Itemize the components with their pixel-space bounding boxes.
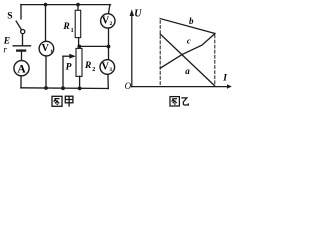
voltmeter V2 circle [101, 14, 115, 28]
wire node M1 to right column [79, 45, 108, 47]
wire V3 to bottom [107, 74, 109, 88]
svg-text:c: c [187, 36, 191, 46]
wire node to V3 [108, 47, 110, 60]
wire slider P vertical [62, 56, 64, 88]
wire top right corner down to V2 [108, 5, 110, 14]
switch S blade [16, 21, 21, 30]
node dot T1 above R1 [76, 3, 80, 7]
node dot bottom V1 [44, 86, 48, 90]
node dot M1 below R1 [77, 45, 81, 49]
svg-text:V: V [42, 43, 50, 54]
svg-text:2: 2 [110, 21, 113, 27]
svg-text:I: I [222, 74, 227, 84]
wire top horizontal [21, 4, 111, 6]
svg-text:b: b [189, 16, 194, 26]
U axis arrowhead [130, 9, 134, 16]
node dot bottom slider [61, 86, 65, 90]
svg-text:1: 1 [50, 49, 53, 55]
node dot bottom R2 [78, 87, 82, 91]
arrowhead slider P [69, 54, 76, 59]
wire V1 branch top [45, 5, 47, 42]
dashed vline at I1 [159, 21, 161, 87]
node dot right junction V2/V3 [107, 45, 111, 49]
I axis arrowhead [227, 84, 232, 88]
wire ammeter to bottom [20, 76, 22, 88]
svg-text:a: a [185, 66, 190, 76]
svg-text:A: A [17, 63, 26, 75]
wire top-left stub to switch [20, 5, 22, 19]
wire battery to ammeter [21, 52, 23, 61]
svg-text:R: R [84, 61, 91, 71]
battery E short plate [17, 49, 25, 51]
rheostat R2 box [76, 48, 82, 76]
ammeter A circle [14, 61, 29, 76]
line c [160, 34, 215, 69]
resistor R1 box [75, 10, 81, 37]
svg-text:r: r [3, 45, 7, 55]
caption 图乙 (drawn) [170, 97, 188, 106]
svg-text:P: P [66, 63, 72, 73]
dashed vline at I2 [214, 35, 216, 86]
line b [160, 19, 215, 34]
I axis [132, 86, 230, 88]
wire M1 to R2 [78, 46, 80, 48]
node dot top V1 branch [44, 3, 48, 7]
svg-text:3: 3 [109, 67, 112, 73]
wire stub top to R1 [77, 5, 79, 11]
U axis [131, 14, 133, 87]
line a [160, 34, 214, 85]
wire R1 to node M1 [78, 38, 80, 47]
wire V2 to node [108, 28, 110, 44]
caption 图甲 (drawn) [52, 96, 73, 106]
battery E long plate [13, 45, 30, 47]
svg-text:1: 1 [71, 28, 74, 34]
wire R2 to bottom [79, 76, 81, 88]
wire bottom horizontal [21, 87, 109, 90]
voltmeter V3 circle [100, 60, 115, 75]
wire switch to battery [22, 34, 24, 45]
svg-text:R: R [62, 22, 69, 32]
voltmeter V1 circle [39, 41, 54, 56]
svg-text:S: S [7, 11, 12, 21]
wire slider P horizontal shaft [63, 55, 70, 57]
svg-text:U: U [134, 9, 142, 20]
svg-text:O: O [125, 81, 132, 91]
wire V1 to bottom [45, 56, 47, 88]
svg-text:2: 2 [92, 67, 95, 73]
switch S contact circle [21, 30, 25, 34]
